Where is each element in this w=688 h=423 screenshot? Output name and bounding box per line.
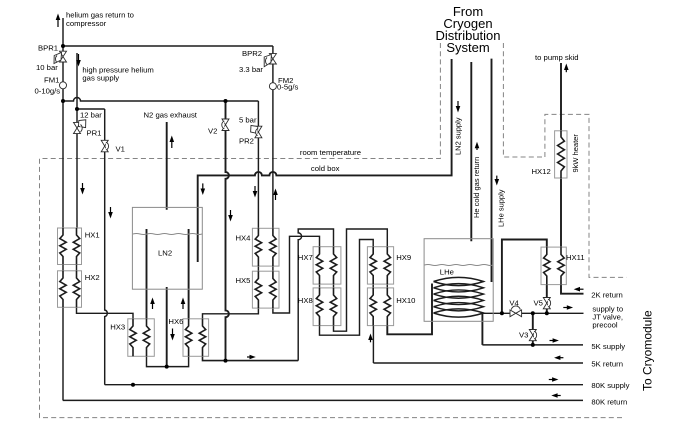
svg-text:V4: V4 (509, 299, 519, 308)
arrow 5K return riser up (368, 334, 373, 343)
svg-text:BPR2: BPR2 (242, 49, 262, 58)
HX7 HX8 left run (319, 284, 321, 288)
high pressure helium supply line (76, 53, 79, 271)
svg-text:PR2: PR2 (239, 137, 254, 146)
HX8 left outlet riser to HX9 left (320, 240, 374, 336)
HX9 HX10 left run (372, 284, 374, 288)
HX10 left outlet to 5K return (372, 326, 374, 363)
arrow 80K supply right (549, 377, 559, 382)
arrow LHe supply down (495, 176, 500, 186)
svg-text:3.3 bar: 3.3 bar (239, 65, 263, 74)
junction node V3 top (531, 311, 535, 315)
arrow 80K return left (551, 393, 560, 398)
V2 cooldown line (226, 101, 229, 361)
svg-text:HX3: HX3 (110, 323, 125, 332)
svg-text:HX9: HX9 (396, 253, 411, 262)
80K supply line (105, 384, 583, 386)
svg-text:5K supply: 5K supply (591, 342, 625, 351)
svg-text:HX1: HX1 (85, 231, 100, 240)
HX8 heat exchanger (313, 288, 341, 326)
svg-text:LHe: LHe (440, 268, 454, 277)
HX10 right outlet to subcooler coil (387, 284, 432, 335)
LN2 bath outlet to HX6 (188, 229, 190, 319)
FM1 low pressure header with jump (63, 98, 258, 102)
svg-text:HX5: HX5 (236, 276, 251, 285)
HX10 heat exchanger (367, 288, 393, 326)
svg-text:0-5g/s: 0-5g/s (277, 83, 299, 92)
svg-text:10 bar: 10 bar (36, 63, 58, 72)
PR2 line into HX4 HX5 (257, 101, 259, 271)
junction node PR1 branch (75, 107, 79, 111)
arrow 5K return left (554, 355, 563, 360)
junction node HX11 riser (500, 311, 504, 315)
HX5 right outlet riser to HX7 left with jump (273, 236, 320, 313)
svg-text:V1: V1 (116, 145, 125, 154)
HX3 heat exchanger (128, 319, 155, 357)
subcooler coil outlet to V4 (481, 312, 584, 314)
HX3 HX6 bottom header (147, 356, 189, 366)
LN2 supply from distribution with jumps (198, 59, 452, 262)
N2 gas exhaust line (166, 122, 168, 210)
svg-text:HX10: HX10 (396, 296, 415, 305)
V5 valve (543, 298, 550, 309)
LN2 bath outlet to HX3 (146, 229, 148, 319)
riser to HX11 left (502, 240, 547, 314)
HX11 left outlet through V5 (546, 285, 548, 314)
junction node cooldown tie (224, 359, 228, 363)
riser to HX7 right (298, 229, 333, 361)
HX6 right outlet header to riser (203, 356, 299, 360)
svg-text:80K return: 80K return (591, 398, 627, 407)
arrow supply cold box down (80, 183, 85, 195)
HX7 heat exchanger (313, 247, 341, 284)
HX11 right outlet to 2K return (561, 285, 584, 294)
PR2 pressure regulator (251, 125, 262, 137)
svg-text:System: System (446, 40, 489, 55)
svg-text:HX11: HX11 (566, 253, 585, 262)
HX5 left outlet to HX6 with jump (203, 308, 259, 319)
V3 valve (529, 330, 536, 341)
V2 valve (222, 119, 229, 131)
5K return line (373, 362, 583, 364)
HX6 heat exchanger (183, 319, 209, 357)
arrow He cold gas return up (475, 142, 480, 150)
HX9 heat exchanger (367, 247, 393, 284)
svg-text:To Cryomodule: To Cryomodule (641, 310, 655, 391)
BPR1 to BPR2 header (63, 45, 273, 47)
svg-text:He cold gas return: He cold gas return (472, 157, 481, 218)
svg-text:HX2: HX2 (85, 273, 100, 282)
room temperature dashed boundary (40, 43, 625, 418)
HX8 right outlet riser to HX9 right (334, 229, 388, 331)
HX1 heat exchanger (58, 228, 82, 265)
arrow BPR2 line up (273, 189, 278, 201)
BPR2 return line through HX4 HX5 (272, 46, 274, 271)
svg-text:room temperature: room temperature (300, 148, 361, 157)
svg-text:LN2 supply: LN2 supply (453, 117, 462, 155)
arrow 2K return left (574, 287, 584, 292)
svg-text:V3: V3 (519, 331, 528, 340)
svg-text:HX12: HX12 (532, 167, 551, 176)
arrow N2 exhaust up (170, 136, 175, 149)
HX2 right outlet to HX3 with jump over V1 line (77, 307, 134, 319)
svg-text:LN2: LN2 (158, 249, 172, 258)
coil outlet tap to 5K supply (481, 313, 483, 345)
arrow pump skid up (564, 64, 569, 73)
5K supply line (482, 344, 583, 346)
junction node HX3 80K supply (131, 383, 135, 387)
svg-text:2K return: 2K return (591, 291, 623, 300)
V1 valve (101, 140, 108, 152)
N2 vapour riser through LN2 bath (166, 287, 168, 367)
FM2 flow meter (269, 83, 276, 90)
arrow LN2 to HX6 up (181, 298, 186, 310)
svg-text:BPR1: BPR1 (38, 44, 58, 53)
svg-text:HX7: HX7 (298, 253, 313, 262)
arrow V1 line down (108, 207, 113, 219)
junction node V2 branch (224, 99, 228, 103)
svg-text:LHe supply: LHe supply (497, 189, 506, 227)
arrow cooldown header right (247, 355, 256, 360)
HX9 HX10 right run (386, 284, 388, 288)
svg-text:80K supply: 80K supply (591, 381, 629, 390)
arrow JT supply right (563, 305, 573, 310)
BPR2 back pressure regulator (264, 54, 276, 67)
svg-text:compressor: compressor (66, 19, 107, 28)
pump skid line through heater HX12 to HX11 right (560, 63, 562, 247)
svg-text:V5: V5 (534, 299, 543, 308)
junction node V5 bottom (545, 311, 549, 315)
V4 valve (510, 306, 522, 317)
svg-text:FM1: FM1 (44, 76, 59, 85)
80K return line (63, 399, 583, 401)
svg-text:HX8: HX8 (298, 296, 313, 305)
svg-text:9kW heater: 9kW heater (571, 134, 580, 173)
heater dashed enclosure (545, 114, 627, 277)
LHe subcooler coil (434, 277, 484, 317)
svg-text:precool: precool (592, 321, 618, 330)
svg-text:0-10g/s: 0-10g/s (35, 87, 61, 96)
arrow supply down (76, 54, 81, 67)
arrow LN2 supply down (201, 183, 206, 195)
arrow N2 vapour down (170, 329, 175, 341)
svg-text:cold box: cold box (311, 164, 340, 173)
svg-text:V2: V2 (208, 127, 217, 136)
helium return main via BPR1 FM1 (62, 18, 64, 400)
junction node V3 bottom (531, 343, 535, 347)
V3 bypass branch (532, 313, 534, 345)
arrow V2 cooldown line down (228, 210, 233, 222)
junction node FM1 header (61, 99, 65, 103)
svg-text:to pump skid: to pump skid (535, 53, 579, 62)
LN2 tank (132, 207, 202, 289)
cryogen channel right dashed boundary (503, 43, 545, 157)
HX11 heat exchanger (541, 247, 566, 285)
LHe tank (424, 239, 493, 322)
HX2 heat exchanger (58, 271, 82, 308)
FM1 flow meter (60, 82, 67, 89)
arrow LN2 distribution down (456, 101, 461, 113)
svg-text:PR1: PR1 (87, 129, 102, 138)
PR1 branch stub (77, 108, 105, 110)
LHe supply line (491, 59, 493, 282)
arrow PR2 line down (253, 186, 258, 198)
HX7 HX8 right run (333, 284, 335, 288)
He cold gas return line (470, 62, 472, 241)
HX4 heat exchanger (252, 228, 279, 266)
PR1 pressure regulator (74, 120, 86, 134)
HX12 9kW heater (555, 131, 567, 178)
svg-text:HX6: HX6 (168, 317, 183, 326)
junction node N2 riser (165, 365, 169, 369)
arrow LN2 to HX3 up (150, 298, 155, 310)
junction node BPR1 header (61, 44, 65, 48)
svg-text:5K return: 5K return (591, 360, 623, 369)
svg-text:5 bar: 5 bar (239, 116, 257, 125)
arrow helium return up (56, 14, 61, 28)
svg-text:HX4: HX4 (236, 234, 252, 243)
V1 line down to 80K supply (105, 109, 108, 385)
svg-text:gas supply: gas supply (82, 74, 119, 83)
svg-text:N2 gas exhaust: N2 gas exhaust (144, 111, 198, 120)
BPR1 back pressure regulator (54, 51, 67, 63)
arrow 5K supply right (550, 338, 559, 343)
HX5 heat exchanger (252, 271, 279, 308)
svg-text:12 bar: 12 bar (80, 111, 102, 120)
